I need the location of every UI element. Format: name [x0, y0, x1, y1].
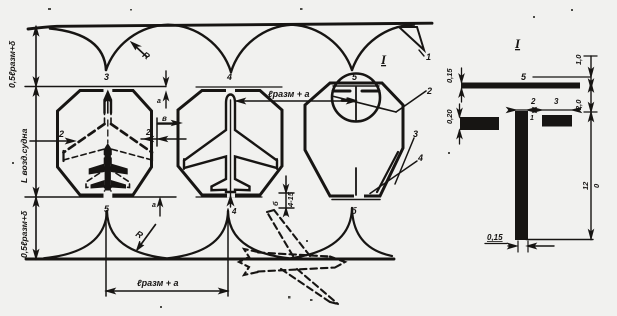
svg-text:3: 3 — [413, 129, 418, 139]
svg-text:4: 4 — [226, 72, 232, 82]
svg-text:4: 4 — [231, 207, 237, 216]
svg-text:L возд.судна: L возд.судна — [19, 128, 29, 183]
svg-text:4: 4 — [417, 153, 423, 163]
svg-text:1,0: 1,0 — [574, 54, 583, 65]
svg-text:2: 2 — [426, 86, 432, 96]
svg-text:0,15: 0,15 — [487, 233, 503, 242]
svg-text:I: I — [514, 36, 521, 51]
svg-text:б: б — [271, 201, 280, 206]
svg-text:0,15: 0,15 — [445, 68, 454, 83]
svg-text:1: 1 — [530, 115, 534, 122]
svg-text:б: б — [351, 206, 357, 216]
svg-text:4-15: 4-15 — [286, 191, 295, 208]
svg-text:1: 1 — [426, 52, 431, 62]
svg-text:a: a — [157, 98, 161, 105]
svg-text:3: 3 — [104, 72, 109, 82]
svg-text:2: 2 — [145, 128, 151, 137]
svg-text:0,5ℓразм+δ: 0,5ℓразм+δ — [19, 210, 29, 258]
svg-text:в: в — [162, 114, 167, 123]
svg-text:ℓразм + а: ℓразм + а — [137, 278, 179, 288]
svg-text:I: I — [380, 52, 387, 67]
svg-text:2: 2 — [530, 97, 536, 106]
svg-text:ℓразм + а: ℓразм + а — [268, 89, 310, 99]
svg-text:0,5ℓразм+δ: 0,5ℓразм+δ — [7, 40, 17, 88]
svg-text:2,0: 2,0 — [574, 99, 583, 111]
svg-text:2: 2 — [58, 129, 64, 139]
svg-text:12: 12 — [581, 181, 590, 190]
svg-text:0,20: 0,20 — [445, 109, 454, 124]
svg-text:a: a — [152, 202, 156, 209]
svg-text:3: 3 — [554, 97, 559, 106]
